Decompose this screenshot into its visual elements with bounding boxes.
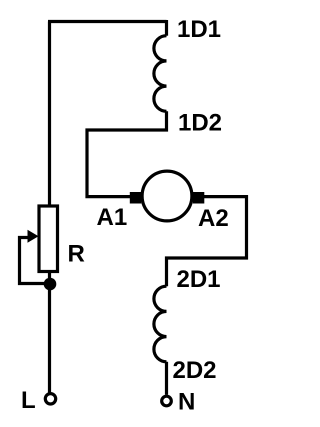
rheostat wiper arrowhead xyxy=(28,230,39,243)
rheostat wiper arm wire xyxy=(20,238,51,284)
wire A2 to 2D1 xyxy=(167,197,247,287)
brush terminal A2 xyxy=(193,192,205,204)
wire top horizontal xyxy=(48,20,167,23)
brush terminal A1 xyxy=(130,192,142,204)
svg-text:A2: A2 xyxy=(198,205,229,232)
armature motor circle M xyxy=(142,171,192,221)
wire rheostat to terminal L xyxy=(48,272,51,393)
svg-text:N: N xyxy=(178,389,195,416)
wire 1D2 to armature A1 xyxy=(87,111,167,196)
svg-text:A1: A1 xyxy=(97,204,128,231)
svg-text:2D2: 2D2 xyxy=(173,357,217,384)
svg-text:1D2: 1D2 xyxy=(178,110,222,137)
junction dot node below rheostat xyxy=(44,278,57,291)
wire left vertical (top section, L line up to top) xyxy=(48,22,51,207)
svg-text:R: R xyxy=(68,241,85,268)
inductor field winding 2D1-2D2 xyxy=(154,286,167,362)
terminal L circle xyxy=(45,394,55,404)
inductor field winding 1D1-1D2 xyxy=(154,36,167,112)
wire 2D2 to terminal N xyxy=(165,362,168,395)
svg-text:1D1: 1D1 xyxy=(177,16,221,43)
svg-text:2D1: 2D1 xyxy=(177,266,221,293)
terminal N circle xyxy=(162,396,172,406)
wire coil 1 top lead xyxy=(165,20,168,36)
rheostat R body xyxy=(39,206,58,272)
svg-text:L: L xyxy=(21,387,36,414)
